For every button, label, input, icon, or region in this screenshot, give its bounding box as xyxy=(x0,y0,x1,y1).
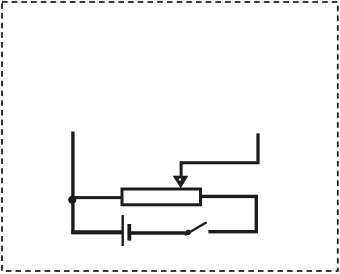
switch S: pivot contact dot xyxy=(186,230,191,235)
wire: junction to resistor left terminal xyxy=(71,196,122,199)
wire: left vertical lead (terminal to bottom-left corner) xyxy=(71,132,74,235)
switch S: open lever blade xyxy=(186,223,206,235)
resistor R (rheostat body) xyxy=(122,189,201,205)
node: junction dot on left wire xyxy=(68,196,76,204)
wire: horizontal wiper feed xyxy=(181,163,259,177)
wire: resistor right terminal, down right side to switch xyxy=(201,196,256,231)
battery: long plate xyxy=(121,215,123,246)
wire: right vertical lead (terminal to wiper feed) xyxy=(256,133,259,162)
battery: short thick plate xyxy=(127,224,131,241)
wire: battery to switch pivot xyxy=(131,231,186,234)
wiper arrow of potentiometer xyxy=(173,176,189,189)
wire: bottom-left horizontal to battery xyxy=(71,230,122,234)
